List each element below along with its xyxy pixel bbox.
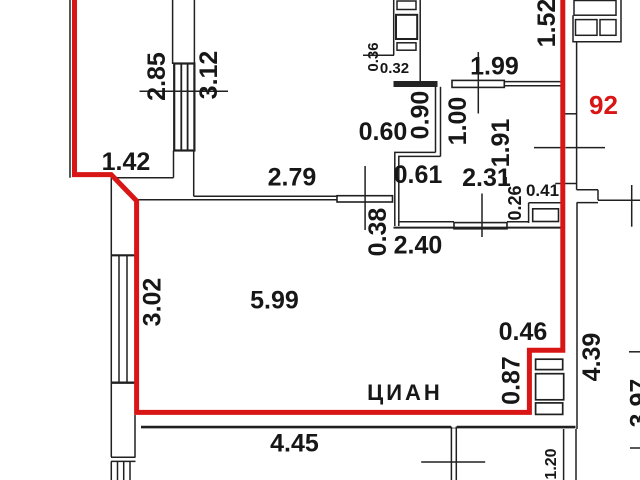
svg-text:0.26: 0.26 bbox=[505, 185, 525, 220]
svg-text:0.38: 0.38 bbox=[364, 208, 392, 257]
svg-text:0.41: 0.41 bbox=[526, 181, 559, 200]
svg-text:1.52: 1.52 bbox=[533, 0, 561, 47]
svg-text:0.46: 0.46 bbox=[499, 318, 548, 346]
svg-text:0.87: 0.87 bbox=[498, 356, 526, 405]
svg-text:ЦИАН: ЦИАН bbox=[367, 380, 443, 405]
svg-text:3.02: 3.02 bbox=[139, 278, 167, 327]
svg-text:1.00: 1.00 bbox=[444, 97, 472, 146]
svg-text:0.60: 0.60 bbox=[359, 118, 408, 146]
svg-text:92: 92 bbox=[589, 90, 618, 120]
svg-text:1.20: 1.20 bbox=[543, 448, 560, 479]
svg-text:0.90: 0.90 bbox=[407, 91, 435, 140]
svg-text:2.40: 2.40 bbox=[394, 232, 443, 260]
svg-text:0.36: 0.36 bbox=[365, 42, 382, 71]
svg-text:3.97: 3.97 bbox=[626, 379, 640, 428]
svg-text:0.61: 0.61 bbox=[394, 161, 443, 189]
svg-text:0.32: 0.32 bbox=[380, 60, 409, 77]
svg-text:2.79: 2.79 bbox=[268, 164, 317, 192]
svg-text:2.85: 2.85 bbox=[143, 52, 171, 101]
svg-text:4.45: 4.45 bbox=[270, 430, 319, 458]
svg-text:5.99: 5.99 bbox=[250, 287, 299, 315]
svg-text:1.91: 1.91 bbox=[487, 119, 515, 168]
svg-text:1.42: 1.42 bbox=[102, 148, 151, 176]
svg-text:1.99: 1.99 bbox=[470, 53, 519, 81]
svg-text:3.12: 3.12 bbox=[195, 51, 223, 100]
svg-text:4.39: 4.39 bbox=[578, 333, 606, 382]
